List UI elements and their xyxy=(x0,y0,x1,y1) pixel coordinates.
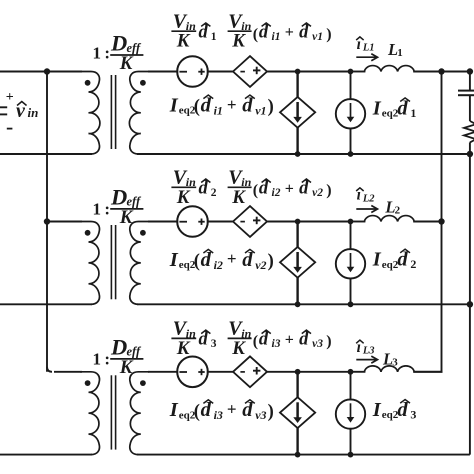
svg-text:I: I xyxy=(372,399,382,421)
current source Id1 (Ieq2 d1) xyxy=(336,72,365,155)
svg-text:eq2: eq2 xyxy=(382,108,399,120)
svg-text:in: in xyxy=(28,105,39,120)
node output row2 bottom xyxy=(467,301,473,307)
transformer T2 core xyxy=(111,225,115,299)
wire L2 to bus xyxy=(413,221,441,223)
wire primary bottom return row3 xyxy=(0,454,92,456)
svg-text:i1: i1 xyxy=(272,31,281,43)
transformer T3 secondary winding xyxy=(130,372,149,455)
wire secondary bottom rail row3 xyxy=(137,454,470,456)
wire output node to capacitor xyxy=(469,72,471,91)
label iL2 current xyxy=(356,187,377,213)
wire node B2 to L2 xyxy=(351,221,366,223)
svg-text:K: K xyxy=(176,31,191,52)
svg-text:+: + xyxy=(285,24,294,41)
svg-text:D: D xyxy=(110,30,127,55)
wire Vd1 to Ev1 xyxy=(207,71,234,73)
wire node B1 to L1 xyxy=(351,71,366,73)
svg-text:d: d xyxy=(201,94,212,116)
svg-text:2: 2 xyxy=(410,257,416,271)
svg-text:d: d xyxy=(242,399,253,421)
node A2 xyxy=(295,219,301,225)
svg-text:1 :: 1 : xyxy=(93,200,111,219)
svg-text:d: d xyxy=(201,249,212,271)
label Ieq2 d2 xyxy=(372,249,417,272)
svg-text:): ) xyxy=(326,182,331,199)
wire primary bottom return row2 xyxy=(0,303,92,305)
svg-text:+: + xyxy=(285,331,294,348)
svg-text:i1: i1 xyxy=(214,103,223,117)
label Vin/K (di2+dv2) xyxy=(228,166,332,207)
label Ieq2 d3 xyxy=(372,399,417,422)
transformer T3 core xyxy=(111,375,115,449)
transformer T2 primary winding xyxy=(80,222,99,305)
svg-text:D: D xyxy=(110,184,127,209)
node bus L2 xyxy=(438,218,444,224)
svg-text:K: K xyxy=(176,338,191,359)
capacitor C (clipped by image edge) xyxy=(458,91,474,96)
label iL1 current xyxy=(356,36,377,61)
voltage source Vd1 (Vin/K d1) xyxy=(177,56,208,87)
label Vin/K (di3+dv3) xyxy=(228,318,332,359)
svg-text:K: K xyxy=(231,187,246,208)
svg-text:L2: L2 xyxy=(362,193,375,204)
label turns ratio 1:Deff/K (T1) xyxy=(93,30,144,74)
svg-text:K: K xyxy=(119,207,134,228)
label Ieq2(di2+dv2) xyxy=(169,249,274,272)
svg-text:): ) xyxy=(268,402,274,422)
svg-text:): ) xyxy=(268,97,274,117)
wire primary bottom return row1 xyxy=(0,153,92,155)
node B2 xyxy=(348,219,354,225)
svg-text:v2: v2 xyxy=(312,187,323,199)
wire L1 to bus xyxy=(413,71,441,73)
node A3 bottom xyxy=(295,452,301,458)
node B3 bottom xyxy=(348,452,354,458)
svg-text:i2: i2 xyxy=(272,187,281,199)
svg-text:L1: L1 xyxy=(362,42,375,53)
label L3 xyxy=(382,350,398,369)
svg-text:d: d xyxy=(397,399,408,421)
label Ieq2(di3+dv3) xyxy=(169,399,274,422)
inductor L2 xyxy=(364,216,414,222)
svg-text:+: + xyxy=(285,180,294,197)
transformer T3 primary winding xyxy=(80,372,99,455)
svg-text:2: 2 xyxy=(395,204,401,216)
svg-text:1: 1 xyxy=(211,31,217,43)
svg-text:i3: i3 xyxy=(272,338,281,350)
transformer T1 secondary winding xyxy=(129,72,149,155)
label Vin/K d2 xyxy=(171,166,216,207)
svg-text:v1: v1 xyxy=(255,103,266,117)
svg-text:eq2: eq2 xyxy=(382,409,399,421)
svg-text:+: + xyxy=(227,95,237,114)
svg-text:I: I xyxy=(169,399,179,421)
svg-text:d: d xyxy=(201,399,212,421)
wire secondary bottom rail row1 xyxy=(137,153,470,155)
node A1 bottom xyxy=(295,151,301,157)
svg-text:+: + xyxy=(227,400,237,419)
svg-text:d: d xyxy=(397,97,408,119)
current source Id3 (Ieq2 d3) xyxy=(336,372,365,455)
svg-text:): ) xyxy=(326,333,331,350)
label Vin/K d1 xyxy=(171,10,216,51)
wire node B3 to L3 xyxy=(351,371,366,373)
node output top xyxy=(467,68,473,74)
svg-text:I: I xyxy=(372,97,382,119)
svg-text:I: I xyxy=(372,249,382,271)
wire Ev2 to node A2 xyxy=(266,221,351,223)
svg-text:3: 3 xyxy=(410,408,416,422)
label turns ratio 1:Deff/K (T2) xyxy=(93,184,144,228)
node bus top xyxy=(438,68,444,74)
svg-text:I: I xyxy=(169,94,179,116)
current source Id2 (Ieq2 d2) xyxy=(336,222,365,305)
svg-text:i2: i2 xyxy=(214,258,223,272)
wire bus vertical xyxy=(441,72,443,372)
node output row1 bottom xyxy=(467,151,473,157)
node B3 xyxy=(348,369,354,375)
svg-text:K: K xyxy=(231,31,246,52)
svg-text:(: ( xyxy=(194,251,200,271)
controlled current source Gd3 (Ieq2(di3+dv3)) xyxy=(280,372,315,455)
wire capacitor to resistor xyxy=(469,95,471,121)
svg-text:3: 3 xyxy=(392,357,398,369)
label Ieq2 d1 xyxy=(372,97,417,120)
svg-text:1 :: 1 : xyxy=(93,44,111,63)
transformer T1 primary winding xyxy=(80,72,100,155)
transformer T1 core xyxy=(111,75,115,149)
wire resistor to row1 bottom xyxy=(469,142,471,154)
svg-text:D: D xyxy=(110,334,127,359)
svg-text:+: + xyxy=(227,249,237,268)
svg-text:(: ( xyxy=(194,402,200,422)
svg-text:K: K xyxy=(176,187,191,208)
wire secondary bottom rail row2 xyxy=(137,303,470,305)
inductor L1 xyxy=(364,66,414,72)
svg-text:v3: v3 xyxy=(312,338,323,350)
svg-text:1: 1 xyxy=(410,106,416,120)
wire left feeder vertical xyxy=(46,72,48,372)
svg-text:K: K xyxy=(231,338,246,359)
voltage source Vd3 (Vin/K d3) xyxy=(177,357,208,388)
svg-text:): ) xyxy=(326,26,331,43)
svg-text:d: d xyxy=(242,249,253,271)
svg-text:v1: v1 xyxy=(312,31,323,43)
svg-text:L3: L3 xyxy=(362,346,375,357)
svg-text:(: ( xyxy=(253,26,258,43)
svg-text:(: ( xyxy=(253,333,258,350)
wire feeder to T2 primary xyxy=(47,221,82,223)
svg-text:3: 3 xyxy=(211,338,217,350)
label Vin/K (di1+dv1) xyxy=(228,10,332,51)
svg-text:1: 1 xyxy=(397,47,403,59)
node feeder row1 xyxy=(44,68,50,74)
wire L3 to bus corner xyxy=(413,371,442,373)
svg-text:d: d xyxy=(242,94,253,116)
svg-text:K: K xyxy=(119,53,134,74)
wire input top rail xyxy=(0,71,82,73)
label L1 xyxy=(387,40,403,59)
resistor R (clipped by image edge) xyxy=(464,121,474,142)
svg-text:I: I xyxy=(169,249,179,271)
controlled current source Gd2 (Ieq2(di2+dv2)) xyxy=(280,222,315,305)
controlled voltage source Ev3 (Vin/K (di3+dv3)) xyxy=(233,356,267,387)
svg-text:(: ( xyxy=(194,97,200,117)
transformer T3 secondary polarity dot xyxy=(140,380,146,386)
svg-text:K: K xyxy=(119,357,134,378)
wire feeder corner to T3 primary xyxy=(47,367,82,372)
transformer T1 primary polarity dot xyxy=(85,80,91,86)
label Vin/K d3 xyxy=(171,318,216,359)
inductor L3 xyxy=(364,366,414,372)
svg-text:v3: v3 xyxy=(255,408,266,422)
voltage source Vd2 (Vin/K d2) xyxy=(177,206,208,237)
label Ieq2(di1+dv1) xyxy=(169,94,274,117)
svg-text:): ) xyxy=(268,251,274,271)
svg-text:(: ( xyxy=(253,182,258,199)
label v_in xyxy=(16,100,38,122)
svg-text:i3: i3 xyxy=(214,408,223,422)
svg-text:d: d xyxy=(397,249,408,271)
wire output vertical row2-row3 xyxy=(469,304,471,454)
transformer T2 primary polarity dot xyxy=(85,230,91,236)
transformer T2 secondary winding xyxy=(130,222,149,305)
wire secondary to source Vd1 xyxy=(148,71,178,73)
node B1 bottom xyxy=(348,151,354,157)
wire bus to output node xyxy=(442,71,470,73)
svg-text:2: 2 xyxy=(211,187,217,199)
controlled current source Gd1 (Ieq2(di1+dv1)) xyxy=(280,72,315,155)
node B2 bottom xyxy=(348,301,354,307)
source v_in (DC input, clipped by image edge) xyxy=(0,90,14,129)
wire output vertical row1-row2 xyxy=(469,154,471,304)
label L2 xyxy=(384,197,400,216)
wire Ev1 to node A1 xyxy=(266,71,351,73)
node A2 bottom xyxy=(295,301,301,307)
svg-text:+: + xyxy=(6,90,14,105)
wire secondary to source Vd3 xyxy=(148,371,178,373)
node B1 xyxy=(348,69,354,75)
transformer T1 secondary polarity dot xyxy=(140,80,146,86)
node feeder row2 xyxy=(44,218,50,224)
svg-text:eq2: eq2 xyxy=(382,259,399,271)
transformer T3 primary polarity dot xyxy=(85,380,91,386)
node A3 xyxy=(295,369,301,375)
wire Ev3 to node A3 xyxy=(266,371,351,373)
svg-text:v2: v2 xyxy=(255,258,266,272)
label turns ratio 1:Deff/K (T3) xyxy=(93,334,144,378)
wire Vd3 to Ev3 xyxy=(207,371,234,373)
wire Vd2 to Ev2 xyxy=(207,221,234,223)
controlled voltage source Ev2 (Vin/K (di2+dv2)) xyxy=(233,206,267,237)
wire secondary to source Vd2 xyxy=(148,221,178,223)
transformer T2 secondary polarity dot xyxy=(140,230,146,236)
label iL3 current xyxy=(356,339,377,363)
svg-text:1 :: 1 : xyxy=(93,350,111,369)
node A1 xyxy=(295,69,301,75)
controlled voltage source Ev1 (Vin/K (di1+dv1)) xyxy=(233,56,267,87)
